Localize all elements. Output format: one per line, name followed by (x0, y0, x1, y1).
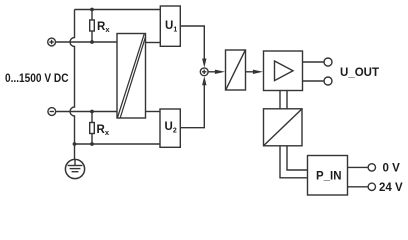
wire U2 output to summing node (arrow up) (180, 76, 206, 128)
terminal - (48, 108, 56, 116)
terminal + (48, 38, 56, 46)
svg-text:P_IN: P_IN (316, 171, 342, 183)
terminal U_OUT 1 (324, 58, 332, 66)
svg-text:0 V: 0 V (383, 163, 401, 175)
terminal U_OUT 2 (324, 77, 332, 85)
wire amp to power isolation left (279, 91, 281, 109)
output amplifier U3 (264, 51, 303, 91)
wire top rail (75, 9, 161, 11)
box P_IN (308, 156, 348, 196)
resistor R2 (Rx lower) (90, 112, 95, 145)
junction dot - rail / R2 (90, 110, 94, 114)
wire amp to power isolation right (286, 91, 288, 109)
junction dot + rail / R1 (90, 40, 94, 44)
arrow isolation block to amplifier (246, 70, 264, 74)
wire U1 output to summing node (arrow down) (180, 26, 206, 68)
wire amp to U_OUT terminal 1 (303, 61, 325, 63)
arrow summing node to isolation block (208, 70, 225, 74)
junction dot lower rail / ground branch (73, 142, 77, 146)
wire lower rail to U2 (75, 143, 161, 145)
wire dc/dc to U2 (146, 111, 161, 113)
power supply isolation block (264, 109, 303, 146)
dc/dc isolation converter (main block) (117, 34, 146, 119)
wire amp to U_OUT terminal 2 (303, 80, 325, 82)
svg-text:0...1500 V DC: 0...1500 V DC (5, 73, 69, 85)
wire dc/dc to U1 (146, 42, 161, 44)
svg-text:Rx: Rx (97, 124, 110, 137)
wire P_IN to 0V terminal (348, 166, 369, 168)
terminal 0V (368, 164, 375, 171)
wire power block to P_IN (inner) (287, 146, 308, 170)
summing node (200, 68, 208, 76)
wire P_IN to 24V terminal (348, 186, 369, 188)
junction dot lower rail / R2 (90, 142, 94, 146)
ground (65, 159, 84, 178)
box U2 (160, 109, 180, 147)
svg-text:24 V: 24 V (379, 182, 403, 194)
svg-text:Rx: Rx (97, 21, 110, 34)
wire power block to P_IN (outer) (280, 146, 308, 178)
svg-text:U_OUT: U_OUT (340, 67, 379, 79)
junction dot top rail / R1 (90, 8, 94, 12)
resistor R1 (Rx upper) (90, 10, 95, 43)
wire - rail (56, 111, 117, 113)
wire + rail (56, 41, 118, 43)
terminal 24V (368, 183, 375, 190)
box U1 (160, 6, 180, 46)
isolation block (small) (226, 50, 246, 90)
wire left vertical with hops over + and - rails (70, 10, 75, 161)
